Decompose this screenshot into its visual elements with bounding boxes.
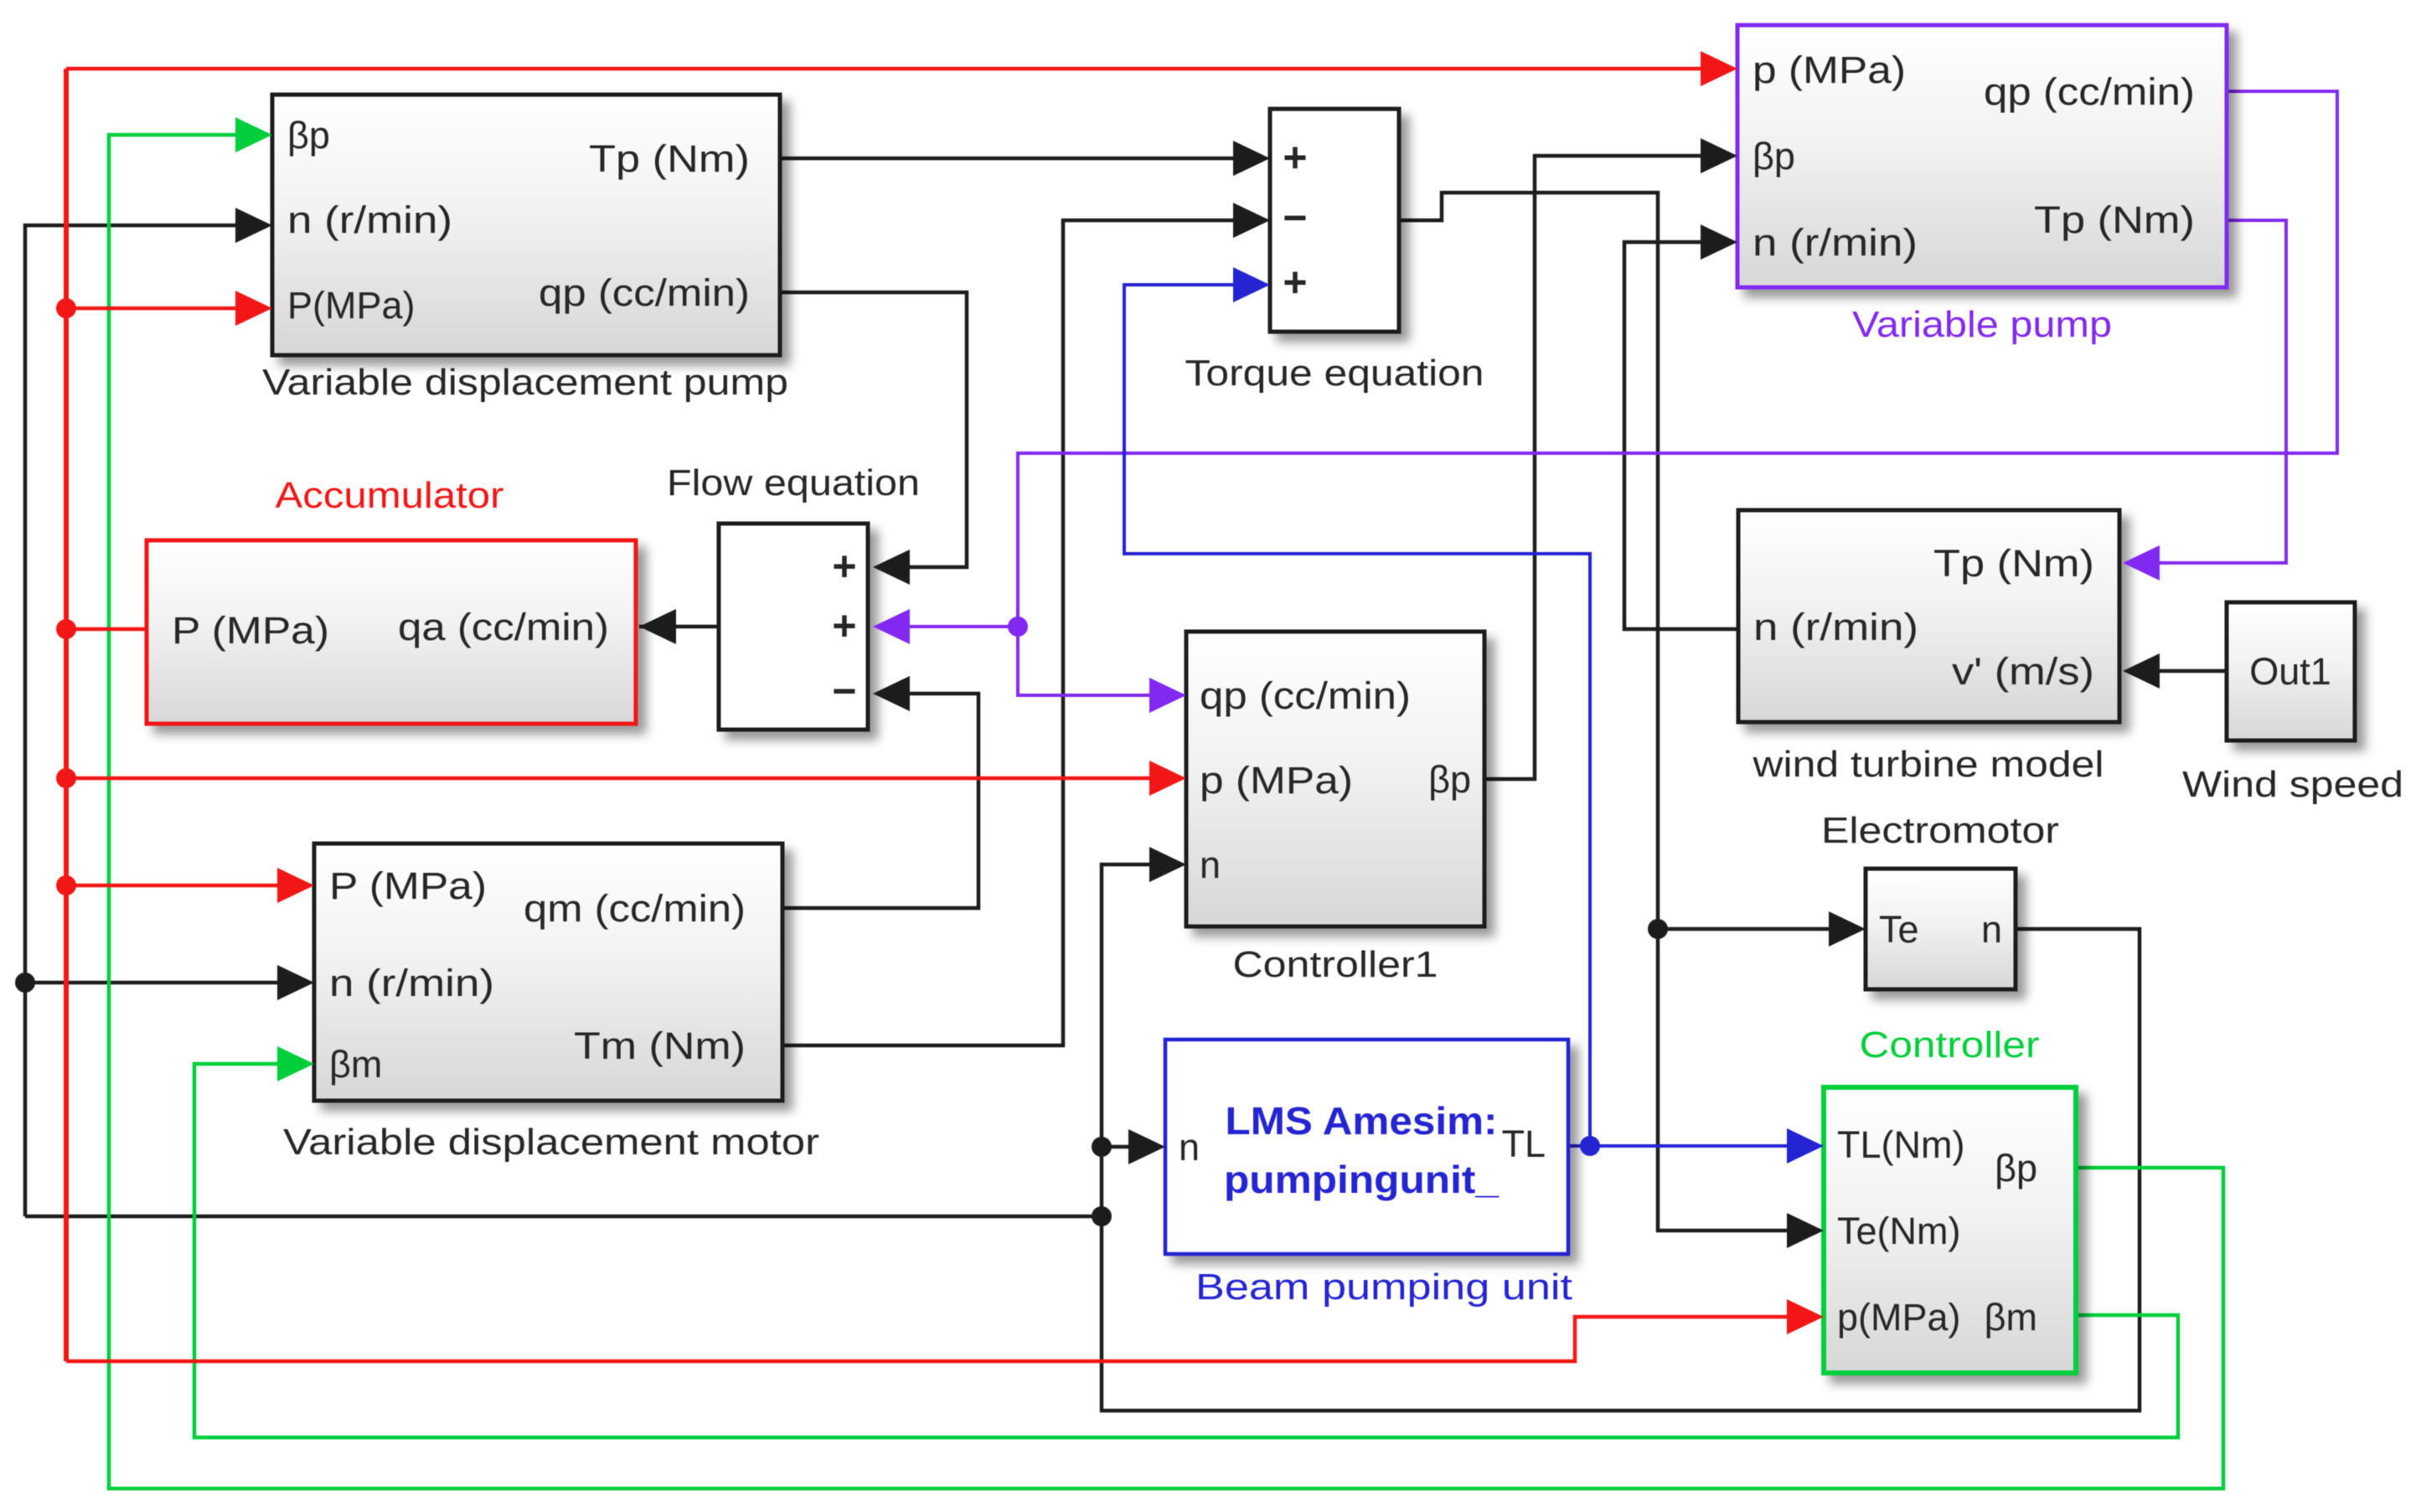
svg-text:P(MPa): P(MPa) [287,284,416,327]
svg-text:Te: Te [1879,908,1919,951]
svg-text:βp: βp [1753,135,1795,178]
svg-text:n (r/min): n (r/min) [329,962,494,1004]
svg-text:βm: βm [1985,1296,2037,1339]
svg-text:Out1: Out1 [2249,650,2331,693]
svg-text:LMS Amesim:: LMS Amesim: [1226,1099,1498,1143]
svg-text:Torque equation: Torque equation [1185,353,1484,394]
svg-text:Controller: Controller [1860,1024,2040,1066]
svg-text:qa (cc/min): qa (cc/min) [398,606,609,648]
svg-text:wind turbine model: wind turbine model [1752,744,2104,785]
svg-text:qp (cc/min): qp (cc/min) [1200,674,1411,717]
svg-text:Variable pump: Variable pump [1852,304,2112,345]
svg-text:βp: βp [287,114,330,157]
svg-text:p (MPa): p (MPa) [1753,49,1906,91]
svg-text:βp: βp [1428,758,1471,801]
svg-text:Wind speed: Wind speed [2182,764,2403,805]
svg-text:Tp (Nm): Tp (Nm) [589,137,750,180]
svg-text:n: n [1200,844,1221,886]
svg-text:p(MPa): p(MPa) [1837,1296,1961,1339]
svg-text:n: n [1179,1126,1200,1169]
svg-text:+: + [832,602,856,649]
svg-text:p (MPa): p (MPa) [1200,759,1353,802]
svg-text:TL(Nm): TL(Nm) [1837,1123,1964,1166]
svg-text:qp (cc/min): qp (cc/min) [539,271,750,314]
svg-text:Tp (Nm): Tp (Nm) [1933,542,2094,585]
svg-text:Flow equation: Flow equation [667,462,920,503]
svg-text:P (MPa): P (MPa) [329,864,487,907]
svg-text:pumpingunit_: pumpingunit_ [1224,1158,1499,1201]
svg-text:qp (cc/min): qp (cc/min) [1984,70,2195,113]
svg-text:−: − [832,668,856,715]
svg-text:qm (cc/min): qm (cc/min) [524,887,746,930]
svg-text:Variable displacement pump: Variable displacement pump [262,362,788,403]
svg-text:+: + [1283,259,1307,306]
svg-text:Beam pumping unit: Beam pumping unit [1195,1267,1572,1308]
svg-text:Controller1: Controller1 [1233,944,1438,985]
svg-text:+: + [1283,134,1307,181]
svg-text:P (MPa): P (MPa) [172,609,329,652]
svg-text:Electromotor: Electromotor [1821,810,2059,851]
svg-text:−: − [1283,194,1307,241]
svg-text:Variable displacement motor: Variable displacement motor [283,1122,819,1163]
svg-text:n (r/min): n (r/min) [1753,221,1918,264]
svg-text:Tp (Nm): Tp (Nm) [2034,199,2195,241]
svg-text:βp: βp [1995,1147,2037,1189]
svg-text:Te(Nm): Te(Nm) [1837,1210,1960,1252]
svg-text:n: n [1981,908,2002,951]
svg-text:+: + [832,543,856,590]
svg-text:Tm (Nm): Tm (Nm) [574,1024,746,1067]
svg-text:n (r/min): n (r/min) [1753,606,1918,648]
svg-text:Accumulator: Accumulator [276,475,504,516]
svg-text:βm: βm [329,1043,382,1086]
svg-text:TL: TL [1501,1122,1546,1165]
svg-text:n (r/min): n (r/min) [287,199,452,241]
svg-text:v' (m/s): v' (m/s) [1952,650,2094,693]
